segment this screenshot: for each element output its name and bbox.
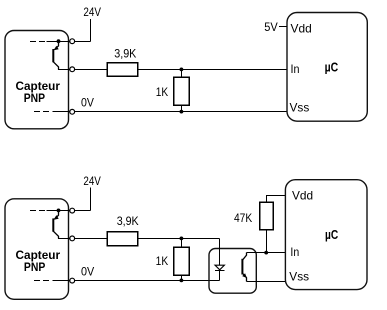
wire: solid segment to 0V terminal (bottom): [55, 280, 70, 282]
svg-text:Capteur: Capteur: [16, 250, 61, 262]
svg-text:Vdd: Vdd: [291, 22, 312, 36]
terminal: output pin circle (top sensor): [70, 67, 75, 72]
junction dot: emitter node (top): [57, 39, 61, 43]
wire: junction up to 47K: [266, 230, 268, 253]
resistor R2 1K body (top): [174, 77, 189, 105]
terminal: +24V pin circle (top sensor): [70, 39, 75, 44]
wire: 1K to 0V rail (bottom): [181, 275, 183, 280]
sensor block U1 "Capteur PNP" (top): [5, 31, 69, 129]
svg-text:24V: 24V: [83, 174, 101, 188]
wire: 24V supply stub vertical (top): [90, 19, 92, 42]
svg-text:Vss: Vss: [289, 270, 309, 284]
arrowhead: PNP emitter arrow (bottom): [54, 215, 59, 220]
svg-text:0V: 0V: [81, 264, 94, 278]
wire: solid segment to terminal 1 (bottom): [47, 210, 70, 212]
wire: internal dashed 0V line (top): [34, 111, 56, 113]
arrowhead: phototransistor emitter arrow: [242, 273, 247, 278]
svg-text:µC: µC: [325, 227, 339, 242]
wire: 0V rail to LED cathode (bottom): [75, 280, 220, 282]
wire: junction to 1K (top): [181, 70, 183, 78]
wire: LED cathode lead: [219, 271, 221, 281]
terminal: output pin circle (bottom sensor): [70, 236, 75, 241]
wire: collector lead to output terminal (bottom): [58, 238, 70, 240]
resistor R1 3,9K body (top): [107, 63, 138, 77]
junction dot: emitter node (bottom): [57, 209, 61, 213]
svg-text:3,9K: 3,9K: [117, 214, 139, 228]
junction dot: In node / 1K top (top): [180, 68, 184, 72]
wire: 0V rail to µC Vss (top): [75, 111, 287, 113]
svg-text:Vss: Vss: [290, 100, 310, 114]
wire: output to resistor R3 (bottom): [75, 238, 107, 240]
µC block (bottom): [285, 180, 367, 290]
svg-text:Vdd: Vdd: [292, 189, 313, 203]
wire: 24V supply stub horizontal (top): [75, 41, 91, 43]
wire: internal dashed line to 24V terminal (top): [30, 41, 48, 43]
optocoupler U3 body: [209, 249, 256, 294]
phototransistor Q3 (in optocoupler): [242, 253, 246, 282]
wire: collector lead to output terminal (top): [58, 69, 70, 71]
transistor Q1 PNP (inside top sensor): [53, 41, 58, 69]
sensor block U2 "Capteur PNP" (bottom): [5, 199, 69, 299]
junction dot: In node / 47K bottom: [264, 251, 268, 255]
svg-text:µC: µC: [325, 59, 339, 74]
wire: collector to µC In (bottom): [247, 252, 286, 254]
wire: 24V supply stub vertical (bottom): [90, 188, 92, 211]
wire: 5V dash to Vdd pin (top): [279, 26, 287, 28]
resistor R5 47K body: [260, 202, 274, 229]
svg-text:5V: 5V: [264, 20, 278, 34]
svg-text:PNP: PNP: [24, 262, 46, 274]
svg-text:In: In: [291, 62, 300, 76]
wire: solid segment to 0V terminal (top): [55, 111, 70, 113]
terminal: +24V pin circle (bottom sensor): [70, 208, 75, 213]
resistor R4 1K body (bottom): [174, 247, 189, 275]
wire: 1K to 0V rail (top): [181, 105, 183, 111]
svg-text:47K: 47K: [234, 211, 252, 225]
wire: LED anode lead: [219, 239, 221, 266]
svg-text:1K: 1K: [156, 85, 168, 99]
svg-text:Capteur: Capteur: [16, 81, 61, 93]
wire: output to resistor R1 (top): [75, 69, 107, 71]
svg-text:PNP: PNP: [24, 93, 46, 105]
junction dot: 1K top node (bottom): [180, 237, 184, 241]
wire: R3 to LED anode corner (bottom): [138, 238, 220, 240]
µC block (top): [287, 13, 367, 122]
junction dot: 1K bottom on 0V rail (bottom): [180, 279, 184, 283]
svg-text:0V: 0V: [81, 96, 94, 110]
wire: junction to 1K (bottom): [181, 239, 183, 248]
LED D1 cathode bar: [215, 270, 225, 272]
svg-text:1K: 1K: [156, 254, 169, 268]
terminal: 0V pin circle (top sensor): [70, 109, 75, 114]
wire: emitter to µC Vss (bottom): [247, 281, 286, 283]
svg-text:24V: 24V: [83, 5, 101, 19]
junction dot: 1K bottom on 0V rail (top): [180, 110, 184, 114]
svg-text:3,9K: 3,9K: [114, 47, 136, 61]
svg-text:In: In: [290, 245, 299, 259]
resistor R3 3,9K body (bottom): [107, 232, 138, 246]
wire: 24V supply stub horizontal (bottom): [75, 210, 91, 212]
wire: internal dashed line to 24V terminal (bottom): [30, 210, 48, 212]
LED D1 triangle: [215, 265, 224, 270]
terminal: 0V pin circle (bottom sensor): [70, 278, 75, 283]
transistor Q2 PNP (inside bottom sensor): [53, 210, 58, 238]
wire: internal dashed 0V line (bottom): [34, 280, 56, 282]
arrowhead: PNP emitter arrow (top): [54, 46, 59, 51]
wire: 47K top to Vdd pin: [267, 196, 286, 203]
wire: solid segment from dash to terminal 1 (top): [47, 41, 70, 43]
wire: R1 to µC In (top): [138, 69, 288, 71]
